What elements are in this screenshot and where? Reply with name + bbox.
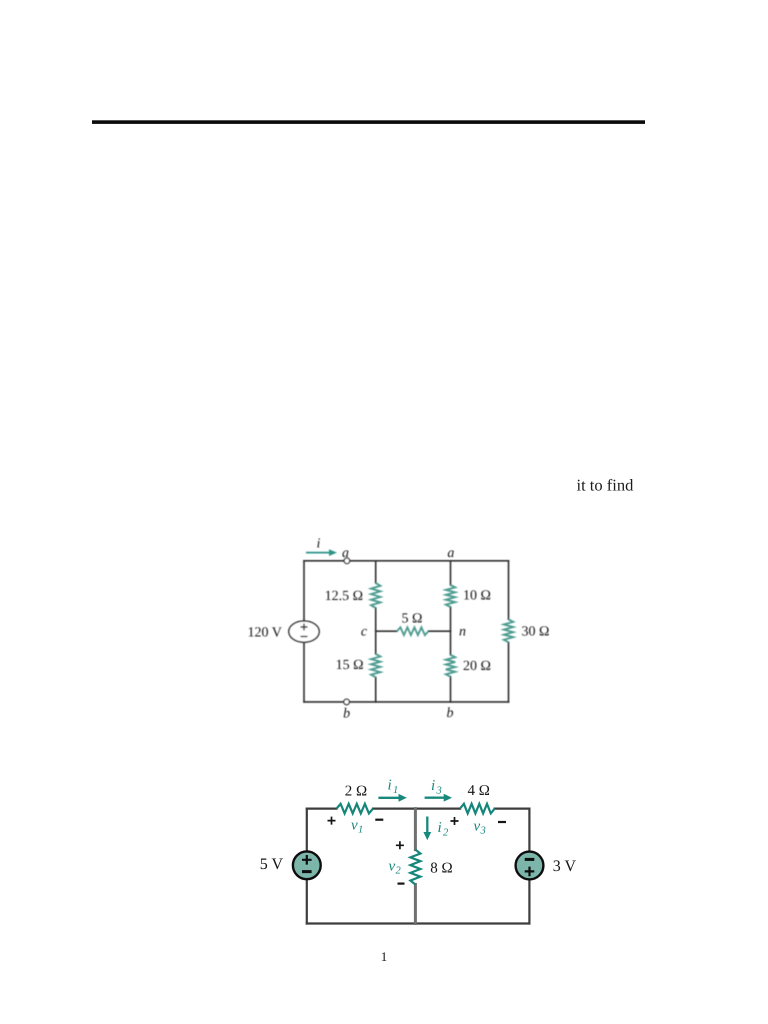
svg-text:i: i [438,820,442,836]
svg-text:2: 2 [443,828,449,839]
svg-text:1: 1 [358,825,363,836]
svg-text:3: 3 [436,786,442,797]
svg-text:i: i [431,778,435,794]
svg-text:5 Ω: 5 Ω [402,612,423,627]
svg-text:n: n [459,625,466,640]
svg-text:20 Ω: 20 Ω [463,659,491,674]
svg-text:10 Ω: 10 Ω [463,589,491,604]
svg-text:b: b [447,706,454,721]
svg-text:1: 1 [393,785,398,796]
svg-text:30 Ω: 30 Ω [522,625,550,640]
svg-text:2 Ω: 2 Ω [345,784,367,800]
svg-text:i: i [317,537,321,552]
svg-text:v: v [351,818,358,834]
svg-text:v: v [474,819,481,835]
svg-text:3 V: 3 V [553,858,577,875]
svg-text:8 Ω: 8 Ω [430,861,452,877]
svg-text:it to find: it to find [577,476,635,495]
svg-text:2: 2 [396,866,402,877]
svg-text:5 V: 5 V [260,856,284,873]
svg-text:a: a [342,546,349,561]
svg-text:v: v [389,859,396,875]
svg-text:4 Ω: 4 Ω [467,783,489,799]
svg-text:120 V: 120 V [248,626,282,641]
svg-text:3: 3 [480,826,486,837]
svg-text:1: 1 [381,949,388,964]
svg-text:12.5 Ω: 12.5 Ω [325,589,363,604]
svg-text:b: b [343,707,350,722]
svg-text:i: i [388,778,392,794]
svg-text:15 Ω: 15 Ω [336,658,364,673]
svg-text:c: c [361,625,368,640]
svg-text:a: a [447,546,454,561]
